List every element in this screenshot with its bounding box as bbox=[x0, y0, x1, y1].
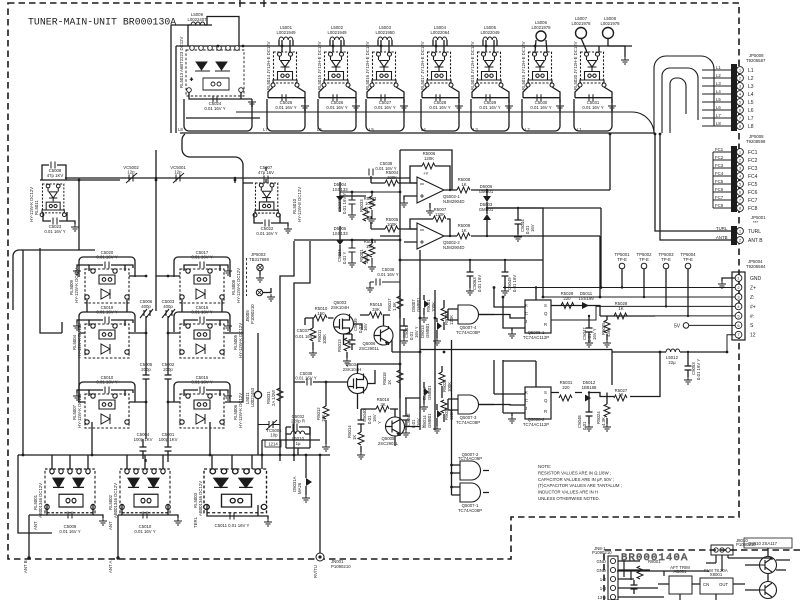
ground ff1 R bbox=[508, 331, 516, 338]
svg-text:ANT A: ANT A bbox=[108, 561, 113, 573]
svg-text:L2: L2 bbox=[748, 76, 754, 82]
svg-text:L4: L4 bbox=[421, 127, 426, 132]
svg-text:0.01 16V Y: 0.01 16V Y bbox=[295, 376, 316, 381]
svg-text:RL5018 JY12H-E DC12V: RL5018 JY12H-E DC12V bbox=[470, 41, 475, 90]
svg-text:TC74AC08P: TC74AC08P bbox=[458, 456, 482, 461]
svg-text:TURL: TURL bbox=[748, 229, 761, 235]
svg-text:AB001346 DC12V: AB001346 DC12V bbox=[113, 483, 118, 518]
svg-text:L5: L5 bbox=[748, 100, 754, 106]
svg-text:RL5020 JY12H-E DC12V: RL5020 JY12H-E DC12V bbox=[573, 41, 578, 90]
svg-text:12: 12 bbox=[750, 333, 756, 339]
svg-text:100K: 100K bbox=[431, 302, 436, 312]
wire rail RL5017 bbox=[421, 99, 459, 131]
svg-text:FC4: FC4 bbox=[715, 171, 724, 176]
and gate Q5007-1 TC74AC08P bbox=[460, 483, 481, 502]
relay RL RL5002 AB001346 DC12V bbox=[120, 469, 170, 513]
wire enclosure RL5004 bbox=[79, 312, 135, 332]
svg-text:AB001346 DC12V: AB001346 DC12V bbox=[198, 481, 203, 516]
svg-text:K: K bbox=[525, 390, 528, 395]
relay RL RL5001 AB001346 DC12V bbox=[45, 469, 95, 513]
svg-text:TP-E: TP-E bbox=[617, 257, 627, 262]
svg-text:L0021978: L0021978 bbox=[571, 21, 591, 26]
svg-text:RL5014 JY12H-E DC12V: RL5014 JY12H-E DC12V bbox=[266, 41, 271, 90]
and gate Q5007-3 TC74AC08P bbox=[458, 395, 479, 414]
svg-text:FC2: FC2 bbox=[748, 158, 758, 164]
svg-text:4.3K: 4.3K bbox=[601, 417, 606, 426]
ground after C5026 bbox=[352, 103, 360, 110]
svg-text:FC7: FC7 bbox=[715, 195, 724, 200]
ground C5053 bbox=[684, 377, 692, 384]
op-amp Q5002-1 NJM2904D bbox=[417, 177, 444, 203]
svg-text:CN: CN bbox=[703, 582, 709, 587]
svg-text:L2: L2 bbox=[525, 127, 530, 132]
wire ff2 bbox=[479, 360, 559, 416]
wire j8010 bbox=[706, 555, 772, 571]
svg-text:INDUCTOR VALUES ARE IN H: INDUCTOR VALUES ARE IN H bbox=[538, 490, 598, 495]
svg-text:TP-E: TP-E bbox=[683, 257, 693, 262]
ground C5033 bbox=[348, 212, 356, 219]
svg-text:400p: 400p bbox=[163, 304, 173, 309]
svg-text:GND: GND bbox=[750, 276, 762, 282]
relay filter RL5014 bbox=[271, 52, 299, 87]
svg-text:L0022049: L0022049 bbox=[480, 30, 500, 35]
svg-text:TC74AC08P: TC74AC08P bbox=[456, 330, 480, 335]
svg-text:#:: #: bbox=[750, 314, 754, 320]
wire Q5003 gate bbox=[305, 318, 334, 325]
op-amp Q5002-2 NJM2904D bbox=[417, 223, 444, 249]
svg-text:0.01 16V: 0.01 16V bbox=[477, 275, 482, 292]
ground after C5028 bbox=[455, 103, 463, 110]
svg-text:MA26: MA26 bbox=[297, 482, 302, 494]
svg-text:TP-E: TP-E bbox=[661, 257, 671, 262]
ground at JP5004 pin1 bbox=[722, 278, 735, 281]
svg-text:L4: L4 bbox=[748, 92, 754, 98]
svg-text:220: 220 bbox=[562, 385, 570, 390]
svg-text:0.01 16V Y: 0.01 16V Y bbox=[429, 105, 450, 110]
wires to JP5004 bbox=[503, 288, 735, 353]
ground C5019 bbox=[77, 320, 89, 323]
capacitor C5031 bbox=[575, 87, 612, 103]
relay filter RL5020 bbox=[578, 52, 606, 87]
svg-text:0.01 16V Y: 0.01 16V Y bbox=[375, 166, 396, 171]
wire mid verticals bbox=[340, 182, 366, 256]
and gate Q5007-4 TC74AC08P bbox=[458, 305, 479, 324]
relay filter RL5019 bbox=[526, 52, 554, 87]
svg-text:T9206584: T9206584 bbox=[746, 264, 766, 269]
svg-text:12p: 12p bbox=[174, 170, 182, 175]
svg-text:TC74AC08P: TC74AC08P bbox=[458, 508, 482, 513]
wire top feeds RL5003 bbox=[212, 455, 252, 469]
wire main bus descent bbox=[182, 134, 243, 183]
svg-text:+Y: +Y bbox=[423, 171, 429, 176]
svg-text:T9208598: T9208598 bbox=[746, 139, 766, 144]
terminal 5V bbox=[683, 323, 689, 329]
wire mid joins bbox=[340, 192, 400, 240]
svg-text:0.01 Y: 0.01 Y bbox=[342, 252, 347, 264]
svg-text:GND: GND bbox=[596, 559, 606, 564]
svg-text:R8001: R8001 bbox=[648, 559, 661, 564]
svg-text:0.01 16V Y: 0.01 16V Y bbox=[374, 105, 395, 110]
capacitor C5026 bbox=[319, 87, 356, 103]
svg-text:16K: 16K bbox=[366, 244, 374, 249]
svg-text:NOTE:: NOTE: bbox=[538, 464, 551, 469]
ground C5010 bbox=[174, 518, 182, 525]
relay filter RL5009 bbox=[85, 269, 129, 303]
ground R5033 bbox=[368, 216, 376, 223]
wire x8001 bbox=[617, 571, 745, 600]
wire antenna drops bbox=[29, 455, 320, 557]
relay filter RL5013 bbox=[186, 46, 244, 96]
ground L5008 bbox=[621, 57, 629, 64]
connector J8010 bbox=[711, 545, 733, 555]
svg-text:C: C bbox=[525, 311, 528, 316]
svg-text:400p: 400p bbox=[141, 304, 151, 309]
wire grid to bus bbox=[23, 250, 320, 469]
svg-text:NJM2904D: NJM2904D bbox=[443, 245, 465, 250]
wire rail RL5013 bbox=[184, 99, 252, 131]
transistor Q5006 2SC2901L bbox=[374, 326, 393, 345]
svg-text:GND: GND bbox=[596, 568, 606, 573]
svg-text:0.01 16V Y: 0.01 16V Y bbox=[377, 272, 398, 277]
capacitor C5044 bbox=[515, 208, 522, 234]
svg-text:16V: 16V bbox=[530, 224, 535, 232]
relay filter RL5010 bbox=[253, 183, 280, 217]
svg-text:L4: L4 bbox=[716, 89, 721, 94]
capacitor C5028 bbox=[422, 87, 459, 103]
svg-text:HY-12W-K DC12V: HY-12W-K DC12V bbox=[236, 268, 241, 303]
ground C5015 bbox=[224, 393, 232, 400]
svg-text:L8: L8 bbox=[178, 127, 183, 132]
inductor L5012 22u bbox=[666, 349, 680, 352]
transistor Q8010 2SA117 bbox=[744, 538, 792, 548]
svg-text:1K: 1K bbox=[352, 435, 357, 440]
ground op1 bbox=[429, 203, 431, 208]
wire q5005 out bbox=[395, 398, 420, 446]
capacitor C5029 bbox=[472, 87, 509, 103]
capacitor C5008 47p 1KV bbox=[51, 162, 55, 169]
svg-text:L7: L7 bbox=[263, 127, 268, 132]
svg-text:L8: L8 bbox=[748, 124, 754, 130]
svg-text:P1090210: P1090210 bbox=[331, 564, 351, 569]
svg-text:1B8188: 1B8188 bbox=[582, 385, 597, 390]
svg-text:2SC2901L: 2SC2901L bbox=[359, 346, 380, 351]
trimmer AB001 AFT bbox=[669, 576, 692, 594]
svg-text:L3: L3 bbox=[473, 127, 478, 132]
ground C5016 bbox=[224, 323, 232, 330]
wire gate feeds bbox=[448, 309, 489, 495]
svg-text:R: R bbox=[544, 409, 547, 414]
wire enclosure RL5009 bbox=[79, 257, 135, 277]
wire op2 feedback bbox=[410, 219, 450, 236]
wire q cluster bbox=[344, 324, 421, 352]
relay filter RL5006 bbox=[180, 394, 224, 428]
svg-text:L0022064: L0022064 bbox=[430, 30, 450, 35]
svg-text:FC8: FC8 bbox=[748, 206, 758, 212]
svg-text:R5013: R5013 bbox=[337, 339, 342, 352]
svg-text:FC6: FC6 bbox=[715, 187, 724, 192]
svg-text:22µ: 22µ bbox=[668, 360, 676, 365]
wire x156 down bbox=[129, 150, 180, 322]
svg-text:1µ: 1µ bbox=[296, 441, 301, 446]
svg-text:0.01 16V Y: 0.01 16V Y bbox=[204, 106, 225, 111]
ground op1 noninv bbox=[400, 200, 408, 207]
svg-text:Q8010 2SA117: Q8010 2SA117 bbox=[748, 541, 778, 546]
label 1214 bbox=[265, 440, 281, 447]
relay filter RL5004 bbox=[85, 324, 129, 358]
ground after C5030 bbox=[556, 103, 564, 110]
svg-text:HY-12W-K DC12V: HY-12W-K DC12V bbox=[238, 323, 243, 358]
wire bus y461 bbox=[18, 455, 330, 533]
capacitor C5053 bbox=[685, 352, 692, 377]
svg-text:C5037: C5037 bbox=[297, 328, 310, 333]
svg-text:C: C bbox=[525, 398, 528, 403]
svg-text:0.01 16V Y: 0.01 16V Y bbox=[134, 529, 155, 534]
ground C5017 bbox=[224, 268, 232, 275]
wire top bus bbox=[176, 45, 632, 47]
sub-board BR000140A outline (dashed) bbox=[604, 550, 800, 600]
svg-text:P1090210: P1090210 bbox=[250, 304, 255, 324]
svg-text:UNLESS OTHERWISE NOTED.: UNLESS OTHERWISE NOTED. bbox=[538, 496, 600, 501]
vertical bus x400 bbox=[380, 150, 452, 436]
svg-text:RL5016 JY12H-E DC12V: RL5016 JY12H-E DC12V bbox=[365, 41, 370, 90]
wire bus loop to JP5008 bbox=[236, 56, 714, 133]
transistor Q5005 2SC2901L bbox=[386, 417, 405, 436]
svg-text:AB001346 DC12V: AB001346 DC12V bbox=[38, 483, 43, 518]
and gate Q5007-2 TC74AC08P bbox=[460, 461, 481, 480]
svg-text:0.01 16V Y: 0.01 16V Y bbox=[326, 105, 347, 110]
svg-text:150: 150 bbox=[317, 311, 325, 316]
svg-text:L3: L3 bbox=[748, 84, 754, 90]
registration ticks top bbox=[240, 0, 264, 7]
svg-text:L1: L1 bbox=[716, 65, 721, 70]
wire Q5034 bbox=[358, 364, 401, 409]
svg-text:RL5017 JY12H-E DC12V: RL5017 JY12H-E DC12V bbox=[420, 41, 425, 90]
wire rail RL5016 bbox=[366, 99, 404, 131]
ground after C5027 bbox=[400, 103, 408, 110]
flip-flop Q5008-1 TC74AC112P bbox=[525, 300, 551, 333]
wire top feeds RL5001 bbox=[52, 455, 88, 469]
capacitor C8001 bbox=[631, 580, 638, 594]
svg-text:GMB01: GMB01 bbox=[425, 323, 430, 338]
svg-text:***: *** bbox=[753, 220, 758, 225]
svg-text:TC74AC08P: TC74AC08P bbox=[456, 420, 480, 425]
svg-text:RV/TU: RV/TU bbox=[313, 565, 318, 578]
svg-text:2SK104H: 2SK104H bbox=[331, 305, 349, 310]
svg-text:FC5: FC5 bbox=[715, 179, 724, 184]
svg-text:0.01: 0.01 bbox=[582, 421, 587, 430]
svg-text:L7: L7 bbox=[716, 113, 721, 118]
svg-text:FC3: FC3 bbox=[715, 163, 724, 168]
ground after C5024 bbox=[248, 99, 256, 106]
terminal RV/TU JN001 bbox=[316, 553, 324, 561]
svg-text:220p R: 220p R bbox=[291, 419, 305, 424]
relay filter RL5005 bbox=[180, 324, 224, 358]
relay filter RL5018 bbox=[475, 52, 503, 87]
svg-text:FC1: FC1 bbox=[748, 150, 758, 156]
ground R5001 bbox=[368, 264, 376, 271]
wire grid verticals bbox=[146, 322, 168, 462]
svg-text:L6: L6 bbox=[748, 108, 754, 114]
svg-text:S: S bbox=[544, 390, 547, 395]
svg-text:TB317898: TB317898 bbox=[249, 257, 269, 262]
svg-text:Z:: Z: bbox=[750, 295, 754, 301]
svg-text:TC74AC112P: TC74AC112P bbox=[523, 335, 549, 340]
svg-text:0.01 16V Y: 0.01 16V Y bbox=[696, 359, 701, 380]
svg-text:L6: L6 bbox=[317, 127, 322, 132]
svg-text:HY-12W-K DC12V: HY-12W-K DC12V bbox=[29, 187, 34, 222]
ground C5034 bbox=[348, 260, 356, 267]
svg-text:AFT TRIM: AFT TRIM bbox=[670, 565, 690, 570]
svg-text:16V: 16V bbox=[372, 414, 377, 422]
svg-text:L0021978: L0021978 bbox=[531, 25, 551, 30]
svg-text:NJM2904D: NJM2904D bbox=[443, 199, 465, 204]
ground C5020 bbox=[77, 265, 89, 268]
svg-text:FC2: FC2 bbox=[715, 155, 724, 160]
svg-text:#+: #+ bbox=[750, 304, 756, 310]
svg-text:FC8: FC8 bbox=[715, 203, 724, 208]
wire rail RL5015 bbox=[318, 99, 356, 131]
wire y178 bbox=[65, 177, 410, 179]
capacitor C5024 bbox=[189, 92, 252, 99]
svg-text:120K: 120K bbox=[424, 156, 434, 161]
capacitor C5025 bbox=[268, 87, 305, 103]
svg-text:12p: 12p bbox=[127, 170, 135, 175]
svg-text:ANT: ANT bbox=[108, 521, 113, 530]
wire rail RL5019 bbox=[522, 99, 560, 131]
svg-text:L1: L1 bbox=[748, 68, 754, 74]
svg-text:FC1: FC1 bbox=[715, 147, 724, 152]
wire grid bus bbox=[79, 240, 243, 402]
svg-text:L6: L6 bbox=[716, 105, 721, 110]
svg-text:RL5015 JY12H-E DC12V: RL5015 JY12H-E DC12V bbox=[317, 41, 322, 90]
wire verticals left bbox=[234, 178, 236, 183]
wire rail RL5020 bbox=[574, 99, 612, 131]
filter X8001 FLM 78.20A bbox=[700, 578, 733, 594]
svg-text:Z+: Z+ bbox=[750, 285, 756, 291]
svg-text:0.01 16V Y: 0.01 16V Y bbox=[59, 529, 80, 534]
wire y350 bbox=[420, 350, 612, 353]
svg-text:TUNER-MAIN-UNIT BR000130A: TUNER-MAIN-UNIT BR000130A bbox=[28, 17, 176, 28]
wire enclosure RL5005 bbox=[174, 312, 230, 332]
svg-text:L3: L3 bbox=[716, 81, 721, 86]
svg-text:5V: 5V bbox=[674, 324, 681, 330]
wire op1 out bbox=[444, 134, 610, 190]
svg-text:J: J bbox=[525, 319, 527, 324]
svg-text:HY-12W-K DC12V: HY-12W-K DC12V bbox=[74, 268, 79, 303]
wire RL5009 bottom bbox=[87, 300, 127, 312]
svg-text:(T)CAPACITOR VALUES ARE TAN: (T)CAPACITOR VALUES ARE TANTALUM ; bbox=[538, 483, 622, 488]
svg-text:OUT: OUT bbox=[719, 582, 728, 587]
relay filter RL5015 bbox=[322, 52, 350, 87]
svg-text:HY-12W-K DC12V: HY-12W-K DC12V bbox=[238, 393, 243, 428]
svg-text:L0021949: L0021949 bbox=[327, 30, 347, 35]
svg-text:100K: 100K bbox=[322, 334, 327, 344]
svg-text:1K: 1K bbox=[461, 182, 466, 187]
svg-text:2SK104H: 2SK104H bbox=[343, 367, 361, 372]
svg-text:1-2: 1-2 bbox=[600, 577, 607, 582]
wire op1 inputs bbox=[371, 176, 417, 200]
ground after C5031 bbox=[608, 103, 616, 110]
svg-text:2A 1/2W: 2A 1/2W bbox=[271, 389, 276, 406]
svg-text:47p 1KV: 47p 1KV bbox=[47, 173, 64, 178]
svg-text:0.01 16V: 0.01 16V bbox=[512, 275, 517, 292]
svg-text:0.01 16V Y: 0.01 16V Y bbox=[582, 105, 603, 110]
svg-text:L2: L2 bbox=[716, 73, 721, 78]
ground C5023 bbox=[71, 224, 79, 231]
ground ff2 R bbox=[508, 416, 516, 423]
svg-text:TP-E: TP-E bbox=[639, 257, 649, 262]
wire rail RL5014 bbox=[267, 99, 305, 131]
svg-text:16V: 16V bbox=[363, 323, 368, 331]
svg-text:S: S bbox=[544, 303, 547, 308]
wire left riser bbox=[13, 180, 95, 310]
svg-text:L0022407: L0022407 bbox=[187, 17, 207, 22]
capacitor C5027 bbox=[367, 87, 404, 103]
svg-text:10p: 10p bbox=[270, 433, 278, 438]
svg-text:HY-12W-E DC12V: HY-12W-E DC12V bbox=[297, 187, 302, 222]
ground C5044 bbox=[514, 234, 522, 241]
svg-text:ANT B: ANT B bbox=[23, 560, 28, 573]
relay RL RL5003 AB001346 DC12V bbox=[204, 469, 267, 513]
svg-text:ANT B: ANT B bbox=[748, 238, 763, 244]
svg-text:TERL: TERL bbox=[193, 516, 198, 528]
svg-text:16V Y: 16V Y bbox=[592, 328, 597, 340]
ground cluster1 bbox=[420, 315, 428, 322]
svg-text:K: K bbox=[525, 303, 528, 308]
ground C5036 bbox=[366, 285, 374, 292]
svg-text:0.01 16V Y: 0.01 16V Y bbox=[530, 105, 551, 110]
svg-text:RL5011: RL5011 bbox=[34, 200, 39, 215]
svg-text:L0021978: L0021978 bbox=[600, 21, 620, 26]
wire RL5008 bottom bbox=[182, 300, 222, 312]
svg-text:0.01 16V Y: 0.01 16V Y bbox=[479, 105, 500, 110]
svg-text:1K: 1K bbox=[387, 380, 392, 385]
wires L1-L8 stubs bbox=[702, 70, 731, 126]
svg-text:R: R bbox=[544, 322, 547, 327]
svg-text:T9206587: T9206587 bbox=[746, 58, 766, 63]
svg-text:RL5019 JY12H-E DC12V: RL5019 JY12H-E DC12V bbox=[521, 41, 526, 90]
svg-text:ANT: ANT bbox=[33, 521, 38, 530]
flip-flop Q5008-2 TC74AC112P bbox=[525, 387, 551, 419]
svg-text:C5011 0.01 16V Y: C5011 0.01 16V Y bbox=[215, 523, 250, 528]
svg-text:L8: L8 bbox=[716, 121, 721, 126]
svg-text:1-4: 1-4 bbox=[600, 586, 607, 591]
wires TURL/ANTB bbox=[655, 134, 731, 240]
svg-text:16V Y: 16V Y bbox=[414, 326, 419, 338]
wire op2 out bbox=[444, 208, 601, 297]
wire ff1 bbox=[479, 288, 655, 332]
wires FC stubs bbox=[713, 152, 731, 208]
capacitor C5011 bbox=[207, 505, 268, 519]
wire enclosure RL5007 bbox=[79, 382, 135, 402]
wire op2 inputs bbox=[371, 222, 417, 242]
svg-text:1.5K: 1.5K bbox=[392, 302, 397, 311]
svg-text:L0021949: L0021949 bbox=[276, 30, 296, 35]
svg-text:FC7: FC7 bbox=[748, 198, 758, 204]
svg-text:0.01 16V Y: 0.01 16V Y bbox=[256, 231, 277, 236]
wire staircase bbox=[280, 240, 400, 461]
svg-text:+: + bbox=[190, 77, 193, 83]
ground C5010 bbox=[77, 390, 89, 393]
svg-text:33K: 33K bbox=[372, 307, 380, 312]
wire sub rails bbox=[618, 561, 664, 597]
svg-text:FC4: FC4 bbox=[748, 174, 758, 180]
ground C5022 bbox=[284, 226, 292, 233]
svg-text:ANTB: ANTB bbox=[716, 235, 728, 240]
svg-text:1K: 1K bbox=[461, 228, 466, 233]
svg-text:220: 220 bbox=[563, 296, 571, 301]
ground C5009 bbox=[99, 518, 107, 525]
